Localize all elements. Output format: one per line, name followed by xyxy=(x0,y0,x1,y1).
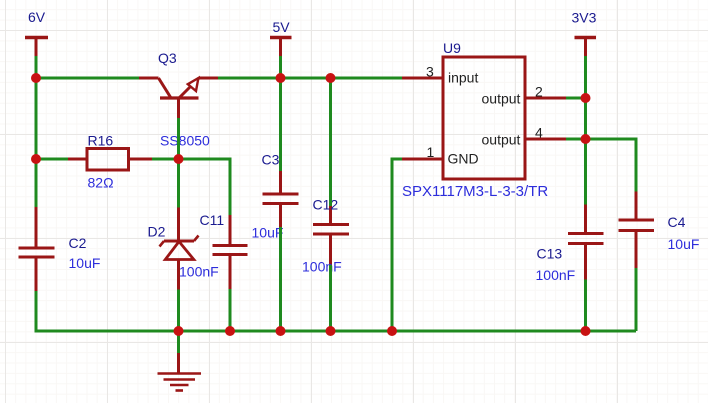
junction at 5V node xyxy=(276,73,286,83)
capacitor C11 xyxy=(213,215,248,289)
junction at C12 bottom xyxy=(326,326,336,336)
svg-text:4: 4 xyxy=(535,125,543,141)
junction at Q3 base node xyxy=(174,154,184,164)
svg-text:10uF: 10uF xyxy=(252,225,284,241)
resistor R16 xyxy=(68,149,152,171)
svg-text:10uF: 10uF xyxy=(69,255,101,271)
wire pin2 to 3V3 rail xyxy=(566,97,586,100)
wire 3V3 rail down to C13 xyxy=(584,139,587,205)
svg-text:100nF: 100nF xyxy=(179,264,219,280)
junction at C11 bottom xyxy=(225,326,235,336)
junction at 6V node xyxy=(31,73,41,83)
wire C4 to bottom rail xyxy=(635,268,638,331)
wire Q3 base down to node xyxy=(177,118,180,159)
wire top rail down to C12 xyxy=(329,78,332,206)
wire pin4 to 3V3 rail xyxy=(566,138,586,141)
svg-text:output: output xyxy=(482,91,521,107)
capacitor C4 xyxy=(619,192,655,269)
svg-text:SPX1117M3-L-3-3/TR: SPX1117M3-L-3-3/TR xyxy=(402,183,548,200)
pin 1 GND xyxy=(400,158,443,161)
svg-text:C4: C4 xyxy=(668,214,686,230)
wire 3V3 stub down to pin2 junction xyxy=(584,56,587,98)
wire top-left horizontal to Q3 collector xyxy=(36,77,139,80)
junction at C3 bottom xyxy=(276,326,286,336)
svg-text:5V: 5V xyxy=(273,19,291,35)
junction at output pin 2 xyxy=(581,93,591,103)
svg-text:C11: C11 xyxy=(200,212,225,228)
svg-text:100nF: 100nF xyxy=(536,267,576,283)
junction at C13 bottom xyxy=(581,326,591,336)
junction at ground node xyxy=(174,326,184,336)
pin 4 output xyxy=(525,138,566,141)
wire U9 GND to bottom rail xyxy=(392,159,402,331)
capacitor C2 xyxy=(19,207,55,291)
power symbol 6V xyxy=(25,38,48,57)
wire R16 right to base node xyxy=(152,158,179,161)
ground xyxy=(158,353,202,391)
wire left rail (6V node to R16 row) xyxy=(35,78,38,159)
pin 3 input xyxy=(402,77,443,80)
zener diode D2 xyxy=(160,208,199,290)
svg-text:3V3: 3V3 xyxy=(572,10,597,26)
svg-text:C12: C12 xyxy=(313,197,339,213)
wire pin4 junction to C4 branch xyxy=(586,139,637,192)
svg-text:100nF: 100nF xyxy=(302,259,342,275)
svg-text:10uF: 10uF xyxy=(668,236,700,252)
svg-text:R16: R16 xyxy=(88,133,114,149)
svg-text:2: 2 xyxy=(535,84,543,100)
svg-text:1: 1 xyxy=(427,144,435,160)
capacitor C3 xyxy=(263,171,299,227)
junction at C12 top xyxy=(326,73,336,83)
svg-text:input: input xyxy=(448,70,478,86)
capacitor C12 xyxy=(313,206,349,265)
svg-text:D2: D2 xyxy=(148,224,166,240)
wire R16 left xyxy=(36,158,68,161)
wire Q3 emitter to 5V rail xyxy=(218,77,402,80)
svg-text:GND: GND xyxy=(448,151,479,167)
wire C3 to bottom rail xyxy=(279,227,282,331)
pin 2 output xyxy=(525,97,566,100)
wire left rail R16 row to C2 xyxy=(35,159,38,207)
svg-text:U9: U9 xyxy=(443,40,461,56)
power symbol 3V3 xyxy=(575,38,597,57)
wire 5V stub xyxy=(279,56,282,78)
svg-text:C13: C13 xyxy=(537,246,563,262)
svg-text:6V: 6V xyxy=(28,9,46,25)
junction at R16 left xyxy=(31,154,41,164)
wire 6V to left rail top xyxy=(35,56,38,78)
wire base node down to D2 xyxy=(177,159,180,208)
wire ground stub xyxy=(177,331,180,353)
svg-text:output: output xyxy=(482,132,521,148)
wire 3V3 rail pin2 to pin4 junction xyxy=(584,98,587,139)
wire C12 to bottom rail xyxy=(329,265,332,331)
transistor Q3 xyxy=(139,78,218,118)
wire base node to C11 branch xyxy=(179,159,231,215)
wire C2 to bottom rail and bottom ground rail xyxy=(36,291,636,331)
svg-text:82Ω: 82Ω xyxy=(88,175,114,191)
wire C13 to bottom rail xyxy=(584,280,587,332)
power symbol 5V xyxy=(270,38,292,57)
capacitor C13 xyxy=(568,205,604,280)
junction at U9 GND branch xyxy=(387,326,397,336)
junction at output pin 4 xyxy=(581,134,591,144)
svg-text:SS8050: SS8050 xyxy=(160,133,210,149)
svg-text:3: 3 xyxy=(426,64,434,80)
wire 5V junction down to C3 xyxy=(279,78,282,171)
wire C11 to ground rail xyxy=(229,289,232,331)
IC U9 regulator body xyxy=(443,57,525,179)
svg-text:C3: C3 xyxy=(262,152,280,168)
svg-text:C2: C2 xyxy=(69,235,87,251)
svg-text:Q3: Q3 xyxy=(158,50,177,66)
wire D2 to ground rail xyxy=(177,290,180,332)
